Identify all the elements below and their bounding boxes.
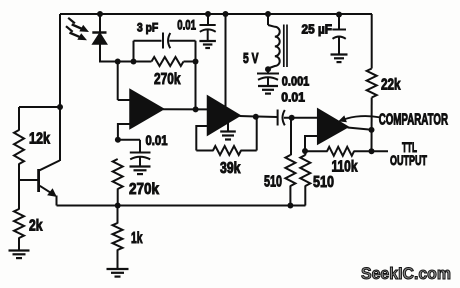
label 1k — [131, 230, 143, 247]
node junction input rail to 3pF box — [131, 59, 137, 65]
wire TTL output stub — [372, 150, 389, 152]
svg-text:22k: 22k — [381, 76, 401, 93]
wire U2 lower input — [196, 126, 208, 151]
resistor 270k bias — [113, 159, 123, 189]
capacitor 0.01 bypass top plate — [130, 152, 151, 154]
node junction 25uF on rail — [336, 12, 342, 18]
transistor Q1 emitter arrowhead — [47, 188, 57, 197]
node junction 270k bias on bottom rail — [115, 203, 121, 209]
wire 510 right bottom lead — [304, 186, 306, 206]
transistor Q1 base bar — [37, 169, 40, 192]
wire photodiode anode lead — [100, 44, 152, 62]
wire 510 left top lead — [290, 118, 292, 156]
wire coupling cap to comparator input — [284, 117, 318, 119]
wire photodiode cathode lead — [99, 14, 101, 32]
label 0.01 supply — [177, 18, 196, 33]
capacitor 0.01 supply top plate — [200, 24, 216, 26]
resistor 110k — [327, 147, 354, 156]
op-amp comparator U3 — [318, 109, 348, 144]
ground under U2 — [220, 132, 236, 140]
label 25 uF — [302, 22, 333, 37]
resistor 22k — [367, 69, 377, 98]
op-amp U2 — [208, 96, 241, 135]
label OUTPUT — [390, 152, 427, 168]
wire 3pF left lead — [134, 40, 162, 42]
wire 0.001 cap to ground — [267, 78, 269, 86]
label COMPARATOR — [379, 111, 448, 128]
node U1 lower input junction — [115, 137, 121, 143]
resistor 510 right — [300, 155, 310, 186]
wire 270k bias bottom lead — [117, 189, 119, 206]
svg-text:0.01: 0.01 — [177, 18, 196, 33]
wire U2 power stub — [225, 14, 227, 108]
capacitor 0.01 bypass lead — [139, 140, 141, 152]
capacitor 25uF top plate — [332, 29, 346, 31]
capacitor 0.01 coupling curved plate — [283, 110, 285, 125]
wire U1 upper input — [118, 99, 131, 101]
wire 39k feedback vertical to U2 output — [256, 117, 258, 151]
svg-text:270k: 270k — [154, 71, 181, 88]
wire 0.01 supply to ground — [207, 30, 209, 41]
wire 22k bottom to output node — [371, 98, 373, 152]
resistor 2k — [14, 209, 24, 238]
wire U1 output — [163, 108, 208, 110]
wire 39k left lead — [196, 150, 213, 152]
wire right vertical from rail to 22k — [371, 14, 373, 69]
node junction TTL output — [369, 148, 375, 154]
wire 39k right lead — [241, 150, 257, 152]
svg-text:2k: 2k — [29, 218, 43, 235]
resistor 510 left — [285, 155, 295, 186]
wire 3pF box left vertical — [133, 41, 135, 62]
node junction U2 power stub — [223, 11, 229, 17]
wire 12k bottom lead to base node — [18, 164, 20, 210]
svg-text:COMPARATOR: COMPARATOR — [379, 111, 448, 128]
node junction 0.01 supply cap — [205, 11, 211, 17]
wire bottom bias rail — [57, 205, 306, 207]
capacitor 0.01 supply lead — [207, 14, 209, 25]
label 2k — [29, 218, 43, 235]
capacitor 0.01 coupling left plate — [277, 110, 279, 126]
svg-text:0.001: 0.001 — [282, 74, 310, 89]
node junction U2 output — [253, 114, 259, 120]
node junction 5V — [265, 66, 271, 72]
photodiode D1 cathode bar — [92, 31, 106, 34]
wire 3pF box right vertical down to U1 output node — [195, 41, 197, 110]
wire 110k left lead — [305, 150, 328, 152]
ground under 0.01 supply — [199, 41, 216, 48]
watermark SeekIC.com — [361, 264, 451, 283]
wire U1 upper input vertical — [117, 62, 119, 101]
label 0.01 bypass — [146, 133, 168, 148]
inductor L1 top lead — [267, 14, 269, 25]
ground under 1k — [107, 269, 129, 277]
capacitor 25uF curved plate — [333, 37, 346, 39]
svg-text:5 V: 5 V — [243, 50, 259, 67]
capacitor 0.001 curved plate — [258, 77, 278, 80]
resistor 39k — [213, 146, 241, 155]
ground under 25uF — [331, 55, 348, 63]
wire 510 right top lead — [304, 151, 306, 155]
svg-text:3 pF: 3 pF — [137, 20, 158, 34]
transistor Q1 base wire — [19, 179, 38, 181]
wire U2 output — [240, 116, 278, 117]
photodiode D1 triangle — [93, 33, 107, 44]
label 22k — [381, 76, 401, 93]
transistor Q1 emitter lead — [40, 186, 56, 196]
resistor 1k — [113, 223, 123, 250]
ground under 0.001 cap — [258, 86, 278, 94]
node junction left rail to 12k branch — [57, 104, 63, 110]
wire 0.01 bypass to ground — [139, 158, 141, 167]
wire emitter down to bottom rail — [56, 196, 58, 206]
node junction U3 lower input — [302, 148, 308, 154]
label 510 right — [313, 174, 334, 191]
light arrow 2 — [66, 26, 87, 40]
svg-text:510: 510 — [264, 174, 282, 191]
wire top supply rail — [60, 13, 372, 15]
wire 25uF to ground — [338, 37, 340, 54]
wire 3pF right lead — [169, 40, 195, 42]
resistor 12k — [14, 130, 24, 164]
wire 270k right lead — [184, 61, 196, 63]
ground stub under U2 — [227, 122, 229, 131]
inductor L1 coil — [268, 25, 280, 69]
svg-text:12k: 12k — [29, 131, 50, 148]
wire 1k bottom lead — [117, 250, 119, 269]
wire 510 left bottom lead — [289, 186, 291, 206]
node junction choke on rail — [265, 11, 271, 17]
inductor L1 core lines — [284, 25, 287, 68]
label 0.01 coupling — [281, 90, 305, 105]
svg-text:25 µF: 25 µF — [302, 22, 333, 37]
label 510 left — [264, 174, 282, 191]
wire U3 lower input — [305, 136, 318, 151]
wire 12k top lead — [18, 107, 20, 131]
label 270k bias — [129, 181, 159, 198]
capacitor 0.001 top plate — [257, 73, 279, 75]
label 3 pF — [137, 20, 158, 34]
capacitor 3pF left plate — [162, 33, 164, 49]
op-amp U1 — [130, 90, 164, 129]
wire 1k top lead — [117, 206, 119, 224]
capacitor 3pF curved plate — [168, 33, 170, 48]
node junction input rail to op-amp U1 — [115, 59, 121, 65]
svg-text:0.01: 0.01 — [281, 90, 305, 105]
wire 110k right lead — [354, 150, 372, 152]
svg-text:39k: 39k — [220, 160, 241, 177]
node junction U1 output / U2 input — [193, 106, 199, 112]
label 110k — [332, 159, 358, 176]
label 39k — [220, 160, 241, 177]
transistor Q1 collector lead — [40, 161, 60, 171]
node junction comparator input — [289, 115, 295, 121]
capacitor 25uF lead — [338, 15, 340, 30]
svg-text:0.01: 0.01 — [146, 133, 168, 148]
wire 2k bottom lead — [18, 238, 20, 251]
svg-text:SeekIC.com: SeekIC.com — [361, 264, 451, 283]
node junction photodiode on top rail — [97, 11, 103, 17]
wire to 0.01 bypass cap — [118, 139, 140, 141]
label 0.001 — [282, 74, 310, 89]
wire left vertical from rail to transistor collector — [59, 14, 61, 161]
light arrow 1 — [68, 18, 89, 32]
wire U1 lower input — [118, 124, 131, 140]
svg-text:510: 510 — [313, 174, 334, 191]
label 12k — [29, 131, 50, 148]
label 5 V — [243, 50, 259, 67]
resistor 270k feedback — [152, 57, 184, 66]
wire U3 output — [348, 128, 372, 130]
capacitor 0.01 bypass curved plate — [130, 157, 150, 160]
capacitor 0.01 supply curved plate — [200, 29, 216, 31]
node junction feedback right — [193, 59, 199, 65]
ground under 0.01 bypass — [130, 167, 151, 175]
comparator pointer arrow — [338, 115, 380, 122]
label TTL — [402, 139, 417, 155]
svg-text:OUTPUT: OUTPUT — [390, 152, 427, 168]
wire horizontal to 12k branch — [19, 106, 60, 108]
ground under 2k — [9, 251, 30, 259]
svg-text:1k: 1k — [131, 230, 143, 247]
label 270k feedback — [154, 71, 181, 88]
svg-text:270k: 270k — [129, 181, 159, 198]
node junction 510 left on bottom rail — [287, 203, 293, 209]
wire choke to 0.001 cap — [267, 69, 269, 74]
svg-text:110k: 110k — [332, 159, 358, 176]
node junction U3 output — [369, 127, 375, 133]
